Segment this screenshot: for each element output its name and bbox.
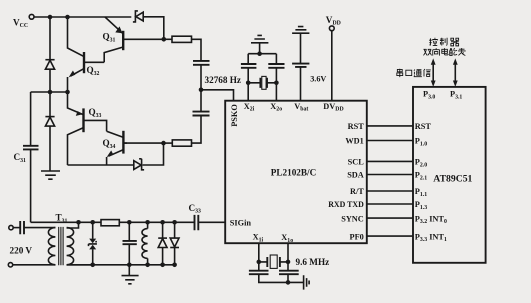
crystal Y2 9.6MHz	[259, 255, 329, 268]
svg-text:SIGin: SIGin	[230, 219, 252, 228]
node VDD terminal	[326, 15, 341, 101]
capacitor CX1	[241, 64, 257, 68]
diode D34 (cathode up)	[158, 222, 167, 264]
svg-text:9.6 MHz: 9.6 MHz	[296, 257, 330, 267]
wire X1i pin	[258, 243, 260, 270]
node junction on VCC rail x67.5	[65, 15, 70, 20]
svg-text:SYNC: SYNC	[341, 214, 364, 223]
svg-text:PF0: PF0	[350, 232, 364, 241]
capacitor C33	[189, 203, 202, 230]
wire 9.6MHz ground rail	[259, 274, 304, 282]
svg-text:AT89C51: AT89C51	[433, 173, 472, 184]
wire SCL to P2.0	[367, 160, 413, 162]
wire cap chain bottom	[192, 116, 202, 143]
node junction oscillator mid	[199, 88, 204, 93]
node junction base-resistor top	[162, 37, 167, 42]
node junction X2o	[274, 81, 279, 86]
node junction X1i	[257, 260, 262, 265]
wire arrow P3.0 double-headed	[431, 58, 436, 87]
wire to PSKO pin	[201, 90, 234, 101]
svg-text:3.6V: 3.6V	[310, 75, 326, 84]
svg-text:WD1: WD1	[345, 137, 363, 146]
ground below C34	[122, 265, 139, 284]
label 控制器 (controller)	[429, 38, 459, 46]
transistor Q32	[68, 17, 105, 92]
ground below diode chain	[41, 171, 60, 179]
svg-text:R/T: R/T	[350, 187, 364, 196]
capacitor C32b	[193, 112, 210, 116]
op-amp U2 AT89C51 chip box	[413, 87, 486, 263]
resistor R33	[101, 220, 119, 226]
node 220V top terminal	[9, 225, 13, 229]
node junction B diode1	[160, 263, 165, 268]
node junction gnd rail	[286, 280, 291, 285]
wire cap chain middle	[200, 65, 202, 111]
diode D35 (cathode down)	[170, 222, 179, 264]
wire SYNC to P3.2	[367, 217, 413, 219]
diode D31b (cathode up)	[45, 117, 54, 127]
node junction crystal top	[257, 51, 262, 56]
node junction B diode2	[172, 263, 177, 268]
diode D32 zener top (cathode left)	[133, 11, 143, 22]
svg-text:RXD TXD: RXD TXD	[328, 200, 364, 209]
wire 220V bottom lead	[13, 264, 56, 266]
wire arrow P3.1 double-headed	[453, 58, 458, 87]
svg-text:220 V: 220 V	[10, 245, 33, 255]
node junction base-resistor bottom	[161, 141, 166, 146]
svg-text:RST: RST	[348, 122, 365, 131]
node junction x50 y92	[48, 90, 53, 95]
diode D33 zener bottom (cathode right)	[134, 159, 144, 170]
resistor R31 top	[164, 36, 201, 60]
wire SDA to P2.1	[367, 174, 413, 176]
wire X2o pin	[275, 68, 277, 101]
node junction X2i	[246, 81, 251, 86]
node junction X1o	[286, 260, 291, 265]
wire bottom zener loop	[68, 143, 164, 165]
node junction A inductor	[145, 220, 150, 225]
capacitor C32a	[193, 61, 210, 65]
svg-text:PSKO: PSKO	[230, 104, 239, 127]
svg-text:32768 Hz: 32768 Hz	[205, 75, 242, 85]
node junction A transformer	[76, 220, 81, 225]
ground above battery	[292, 27, 309, 64]
node junction A cap	[127, 220, 132, 225]
node junction A diode1	[160, 220, 165, 225]
svg-text:PL2102B/C: PL2102B/C	[271, 168, 316, 178]
label 串口通信 (serial communication)	[397, 69, 431, 77]
wire X2i pin	[247, 68, 249, 101]
ground right of 9.6MHz	[304, 275, 310, 289]
wire RXD TXD to P1.3	[367, 203, 413, 205]
ground above 32768 crystal	[251, 35, 268, 53]
node 220V bottom terminal	[8, 263, 12, 267]
wire R/T to P1.1	[367, 190, 413, 192]
varistor RV31	[89, 222, 97, 264]
transistor Q33	[68, 92, 107, 165]
transformer T31	[48, 213, 92, 266]
crystal Y1 32768Hz	[248, 76, 276, 89]
node junction B cap	[127, 263, 132, 268]
resistor R32 bottom	[164, 140, 192, 146]
capacitor CX4	[279, 271, 299, 275]
node junction A varistor	[90, 220, 95, 225]
wire VCC rail	[34, 17, 164, 40]
node junction B inductor	[145, 263, 150, 268]
wire X1o pin	[287, 243, 289, 270]
wire mid horizontal y92	[31, 91, 68, 93]
node junction B varistor	[90, 263, 95, 268]
wire Q34 base lead	[125, 142, 164, 144]
wire crystal top branches	[248, 54, 276, 64]
wire WD1 to P1.0	[367, 140, 413, 142]
op-amp U1 PL2102B/C chip box	[225, 101, 367, 244]
svg-text:SDA: SDA	[347, 171, 364, 180]
wire signal line A	[31, 221, 226, 223]
node junction A diode2	[172, 220, 177, 225]
wire PF0 to P3.3	[367, 235, 413, 237]
transistor Q34	[103, 131, 128, 165]
capacitor CX3	[249, 271, 269, 275]
svg-text:SCL: SCL	[348, 158, 365, 167]
label 双向电能表 (bidirectional energy meter)	[423, 48, 465, 56]
inductor L31	[142, 222, 148, 264]
node junction x67.5 y92	[65, 90, 70, 95]
svg-text:RST: RST	[415, 122, 432, 131]
capacitor CX2	[268, 64, 284, 68]
capacitor C31	[14, 92, 39, 222]
diode D31a (cathode up)	[45, 60, 54, 69]
node junction on VCC rail x50	[48, 15, 53, 20]
capacitor C34	[123, 222, 137, 264]
battery B1 3.6V	[292, 64, 326, 101]
wire diode chain from VCC	[49, 17, 51, 171]
wire bottom rail B	[67, 264, 175, 266]
capacitor input series	[13, 221, 55, 234]
node VCC terminal	[13, 14, 34, 29]
transistor Q31	[103, 17, 164, 62]
wire RST	[367, 125, 413, 127]
